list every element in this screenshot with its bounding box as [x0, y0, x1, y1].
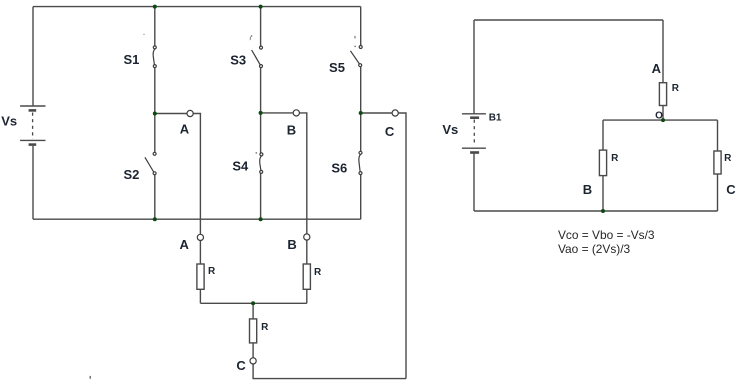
terminal circle node A tap [187, 110, 193, 116]
wire leg3 top [360, 7, 362, 46]
wire star down [252, 303, 254, 319]
wire node A stub right of circle [193, 114, 200, 235]
svg-text:C: C [385, 124, 395, 139]
wire left side upper [32, 7, 34, 106]
resistor R (branch B) [599, 150, 606, 176]
stray dot above S5 circle [354, 46, 355, 47]
junction bottom rail leg2 [259, 217, 263, 221]
wire leg1 S2 upper [154, 114, 156, 153]
svg-text:R: R [611, 153, 619, 164]
wire top rail right circuit [474, 19, 663, 21]
wire leg3 mid [360, 67, 362, 113]
right equivalent circuit wires [462, 20, 721, 211]
svg-text:S1: S1 [123, 52, 139, 67]
stray mark above S5 [354, 36, 356, 39]
stray mark near S1 [143, 34, 144, 35]
svg-text:A: A [180, 237, 190, 252]
svg-text:Vs: Vs [442, 122, 458, 137]
svg-text:C: C [726, 182, 736, 197]
svg-text:S3: S3 [230, 53, 246, 68]
resistor R (phase A load) [197, 264, 204, 289]
svg-text:C: C [236, 358, 246, 373]
svg-text:B: B [287, 237, 296, 252]
wire top rail left circuit [33, 6, 361, 8]
resistor R (branch A) [659, 83, 666, 106]
junction bottom rail leg1 [153, 217, 157, 221]
battery B1 [462, 114, 486, 153]
switch S3 [252, 46, 263, 68]
svg-text:B: B [287, 122, 296, 137]
switch S4 [260, 153, 263, 174]
wire branch C lower [717, 174, 719, 211]
wire leg1 top [154, 7, 156, 46]
wire node C stub [361, 112, 392, 114]
svg-text:A: A [652, 61, 662, 76]
wire branch C upper [717, 120, 719, 151]
wire branch B lower [602, 176, 604, 211]
junction node A [153, 112, 157, 116]
wire bottom rail left circuit [33, 218, 361, 220]
wire A load drop [199, 241, 201, 265]
wire A load to star [199, 289, 201, 303]
junction node o [661, 118, 665, 122]
resistor R (phase C load) [250, 319, 257, 343]
wire branch A upper [662, 20, 664, 83]
stray mark near S3 [250, 36, 251, 40]
svg-text:S2: S2 [123, 167, 139, 182]
wire leg3 S6 upper [360, 113, 362, 151]
svg-text:R: R [208, 266, 216, 277]
svg-text:R: R [261, 322, 269, 333]
stray tick bottom left [89, 376, 91, 379]
svg-text:B1: B1 [489, 113, 502, 124]
wire bottom rail right circuit [474, 210, 718, 212]
junction top rail leg1 [153, 5, 157, 9]
wire leg3 S6 lower [360, 175, 362, 220]
svg-text:Vs: Vs [1, 113, 17, 128]
wire node B stub [261, 112, 294, 114]
wire leg2 top [260, 7, 262, 47]
terminal circle load C [250, 358, 256, 364]
terminal circle node B tap [293, 110, 299, 116]
junction top rail leg2 [259, 5, 263, 9]
wire leg2 mid [260, 68, 262, 113]
wire branch A lower to node o [662, 106, 664, 121]
wire leg2 S4 lower [260, 173, 262, 219]
switch S5 [350, 46, 362, 67]
svg-text:O: O [655, 111, 663, 122]
battery Vs (left source) [20, 106, 45, 145]
terminal circle load B [304, 234, 310, 240]
svg-text:R: R [314, 267, 322, 278]
wire right circuit left side lower [473, 154, 475, 211]
wire left side lower [32, 146, 34, 219]
stray mark near S4 [256, 152, 257, 153]
junction node C [359, 111, 363, 115]
resistor R (phase B load) [303, 264, 310, 289]
wire node B stub right of circle [300, 113, 307, 234]
wire branch B upper [602, 120, 604, 150]
junction bottom rail branch B [601, 209, 605, 213]
svg-text:R: R [724, 153, 732, 164]
wire C terminal to bottom return [253, 364, 406, 379]
wire node C stub right of circle + return wire down [398, 113, 406, 379]
wire leg2 S4 upper [260, 113, 262, 153]
svg-text:A: A [180, 121, 190, 136]
wire leg1 mid (below S1 to node A) [154, 68, 156, 114]
svg-text:Vco = Vbo = -Vs/3: Vco = Vbo = -Vs/3 [558, 228, 655, 242]
svg-text:S5: S5 [329, 60, 345, 75]
wire C load to terminal [252, 343, 254, 358]
terminal circle node C tap [392, 110, 398, 116]
junction star point [251, 301, 255, 305]
svg-text:Vao = (2Vs)/3: Vao = (2Vs)/3 [558, 242, 631, 256]
wire right circuit left side upper [473, 20, 475, 114]
switch S6 [359, 151, 362, 174]
switch S2 [145, 152, 156, 175]
svg-text:R: R [672, 83, 680, 94]
junction node B [259, 111, 263, 115]
resistor R (branch C) [714, 151, 721, 174]
wire star horizontal [200, 302, 306, 304]
wire node A stub [155, 113, 187, 115]
svg-text:S4: S4 [232, 159, 249, 174]
wire B load to star [306, 289, 308, 303]
switch S1 [153, 46, 156, 68]
terminal circle load A [197, 234, 203, 240]
svg-text:B: B [583, 182, 592, 197]
svg-text:S6: S6 [331, 161, 347, 176]
wire leg1 S2 lower [154, 175, 156, 219]
wire node o horizontal [603, 119, 718, 121]
wire B load drop [306, 240, 308, 264]
